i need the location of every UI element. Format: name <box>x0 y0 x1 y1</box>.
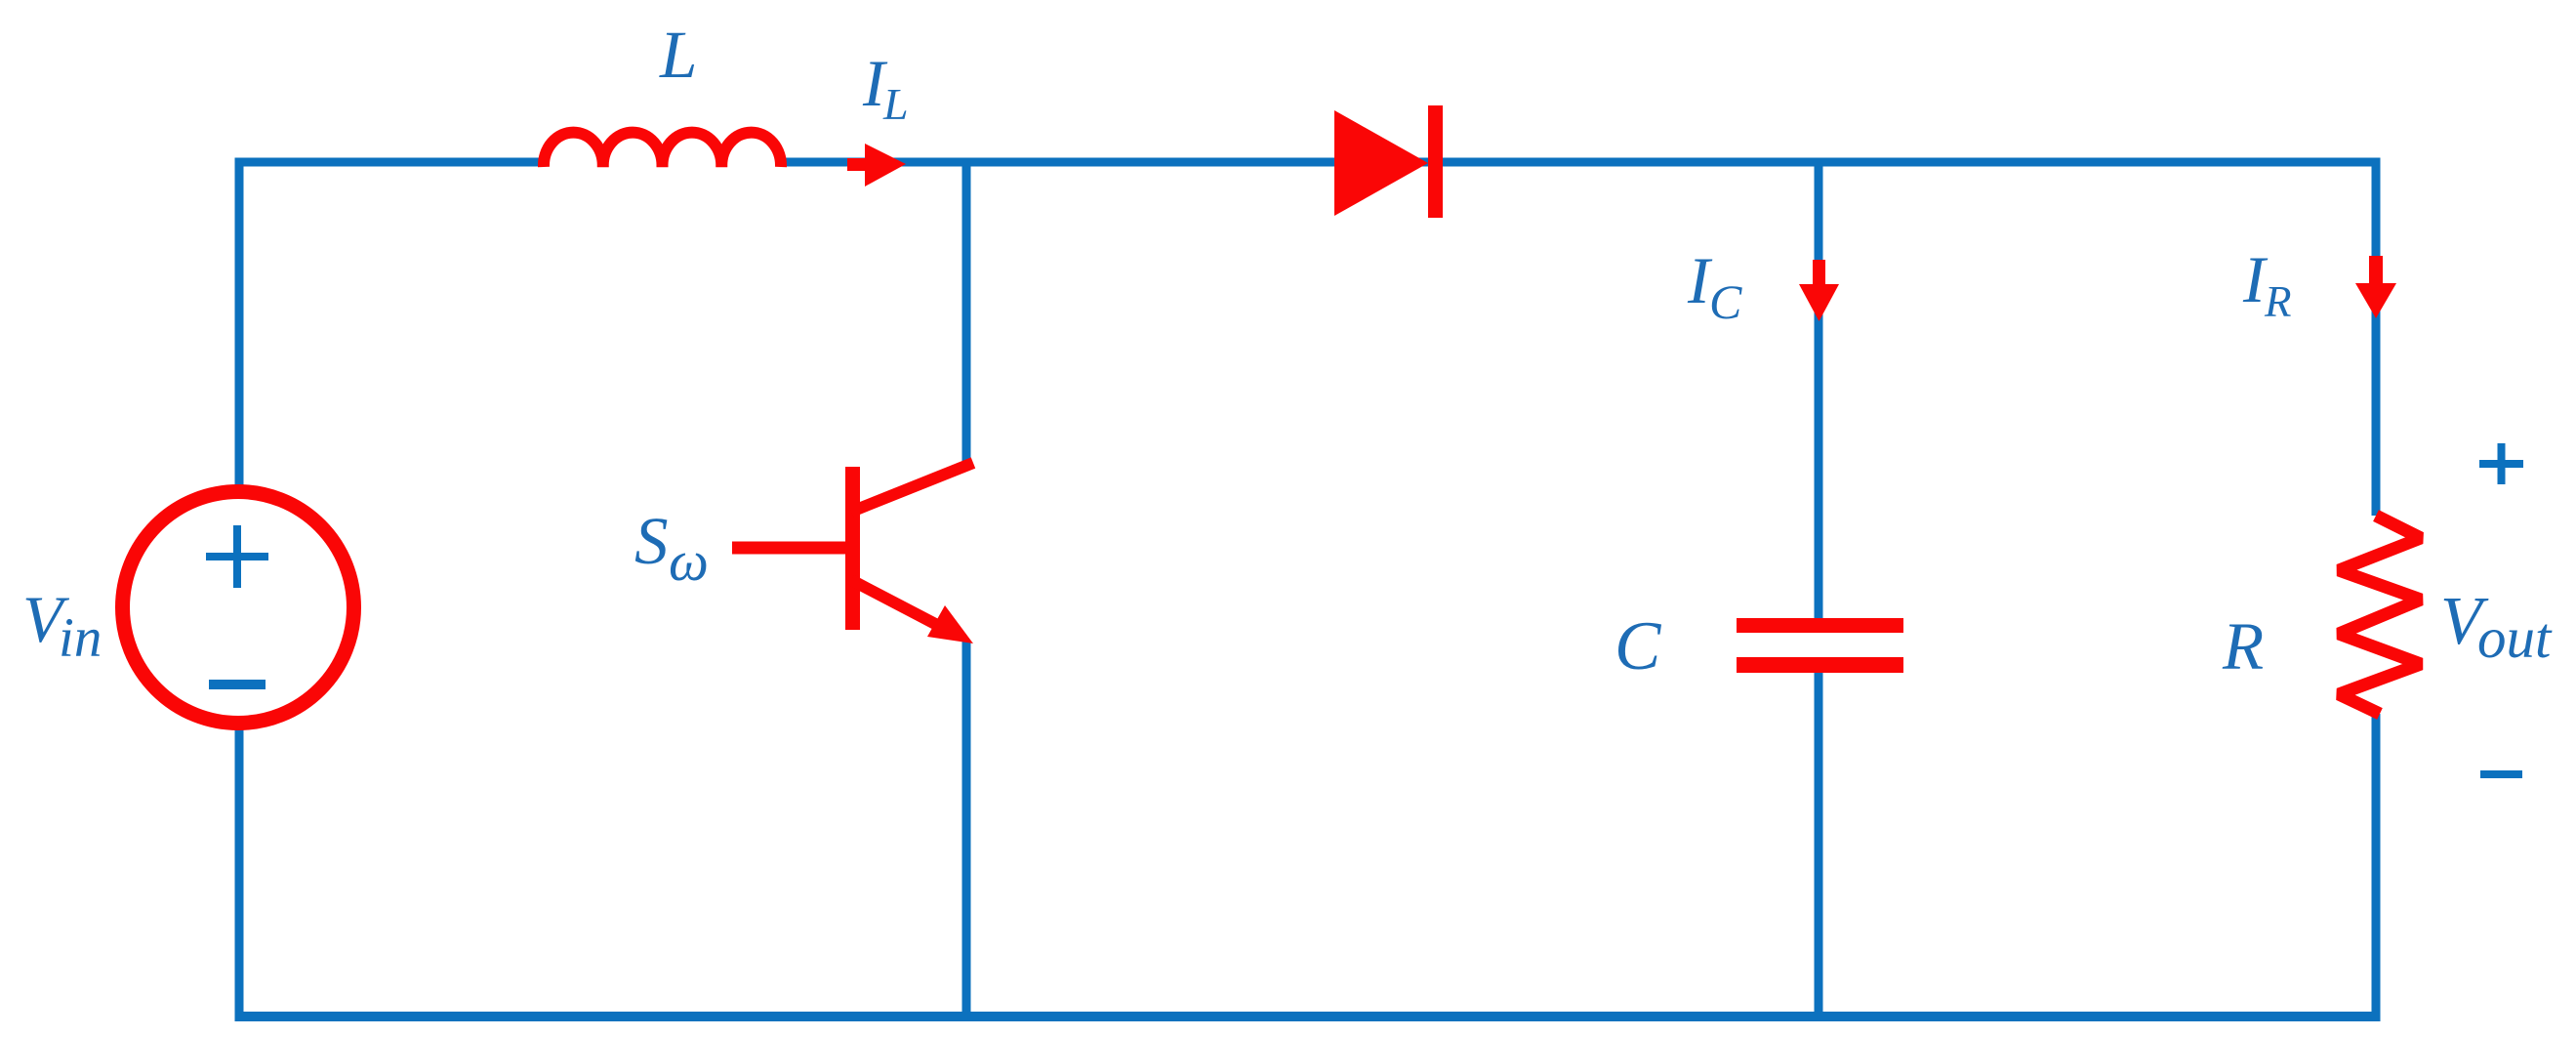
wire capacitor branch lower <box>1815 664 1823 1020</box>
wire left vertical lower <box>235 726 244 1019</box>
transistor base lead <box>732 542 845 555</box>
wire bottom <box>235 1012 2381 1021</box>
voltage source plus sign <box>206 525 268 588</box>
transistor emitter arrowhead <box>927 605 973 643</box>
output plus sign <box>2479 443 2523 484</box>
capacitor C bottom plate <box>1737 657 1903 673</box>
transistor Q1 (switch) base bar <box>845 467 860 630</box>
output minus sign <box>2480 770 2522 778</box>
wire right vertical lower <box>2372 714 2381 1020</box>
current arrow IL <box>847 144 906 187</box>
wire left vertical upper <box>235 158 244 489</box>
svg-text:R: R <box>2264 277 2292 326</box>
wire capacitor branch upper <box>1815 158 1823 627</box>
wire switch branch upper (node A to collector) <box>962 158 971 462</box>
transistor emitter lead <box>851 580 939 626</box>
svg-text:C: C <box>1615 608 1662 684</box>
diode D triangle <box>1334 110 1428 216</box>
wire right vertical upper <box>2372 158 2381 517</box>
svg-text:in: in <box>59 607 102 669</box>
voltage source Vin circle <box>123 492 354 724</box>
current arrow IR <box>2355 256 2396 318</box>
svg-text:C: C <box>1709 274 1742 329</box>
diode D cathode bar <box>1428 105 1443 218</box>
svg-text:L: L <box>882 79 909 129</box>
wire top-left segment <box>235 158 541 167</box>
svg-text:L: L <box>659 18 697 92</box>
svg-text:ω: ω <box>669 529 709 593</box>
voltage source minus sign <box>209 680 266 689</box>
current arrow IC <box>1799 260 1839 321</box>
capacitor C top plate <box>1737 618 1903 633</box>
svg-text:R: R <box>2222 609 2264 684</box>
svg-text:S: S <box>634 504 669 578</box>
inductor L <box>544 133 781 167</box>
svg-text:out: out <box>2477 605 2553 670</box>
wire switch branch lower (emitter to bottom) <box>962 641 971 1020</box>
transistor collector lead <box>851 463 973 512</box>
resistor R zigzag <box>2339 516 2421 714</box>
wire top-right segment <box>785 158 2376 167</box>
